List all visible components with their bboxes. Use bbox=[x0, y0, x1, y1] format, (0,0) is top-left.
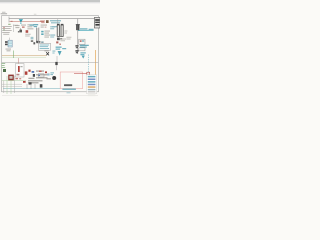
label teal line text bbox=[80, 28, 94, 29]
label teal text under box bbox=[80, 45, 89, 48]
wire orange vertical bbox=[94, 50, 96, 94]
valve V3 on mid line bbox=[55, 62, 57, 70]
node: line to towers bbox=[57, 19, 59, 25]
component dark cluster under towers bbox=[56, 38, 62, 45]
component pump cluster under ladder bbox=[33, 41, 43, 45]
label red text bbox=[40, 21, 45, 24]
label teal text left of towers bbox=[50, 26, 55, 37]
wire short vertical bbox=[13, 24, 15, 32]
label gray text right of towers bbox=[60, 31, 71, 42]
label teal text cluster A bbox=[50, 20, 61, 27]
component small box in band bbox=[38, 74, 44, 77]
component small red box bbox=[87, 72, 90, 75]
wire: long pipe line bbox=[9, 18, 98, 20]
label gray text under vessel bbox=[6, 49, 12, 52]
label gray text near cross bbox=[44, 50, 48, 53]
wire red drop bbox=[18, 58, 20, 64]
component instrument glyphs on riser bbox=[75, 45, 78, 53]
node legend fade rows bbox=[88, 93, 96, 94]
label teal text above ladder bbox=[30, 24, 39, 27]
wire tan line bbox=[2, 54, 47, 56]
component teal flow arrow cluster 2 bbox=[80, 52, 85, 58]
wire green line bbox=[2, 56, 46, 58]
label green text bottom-left bbox=[1, 63, 5, 68]
node red marks in band bbox=[23, 70, 47, 83]
component dark red block bbox=[8, 75, 14, 81]
label gray text right of ladder bbox=[41, 25, 50, 38]
label dense text band center-bottom bbox=[28, 71, 51, 84]
node dark dash beside valve bbox=[18, 31, 19, 33]
top toolbar strip bbox=[0, 0, 100, 2]
label teal marks above pump bbox=[50, 72, 54, 75]
label mid text rows bbox=[15, 24, 33, 29]
annotation text top-left bbox=[1, 12, 8, 15]
wire gray horizontal 3 bbox=[2, 86, 22, 88]
component brown box bbox=[46, 20, 49, 23]
wire: red line L1 bbox=[10, 21, 45, 23]
label small text grid left bbox=[2, 25, 18, 35]
component dark circle pump bbox=[52, 76, 56, 80]
component gray bar inside selection bbox=[64, 84, 72, 86]
component column with rungs (ladder) bbox=[36, 27, 39, 42]
wire: teal line right bbox=[78, 30, 94, 32]
wire mid gray line bbox=[2, 62, 99, 64]
valve V4 under band bbox=[40, 84, 43, 87]
wire teal dashed vertical bbox=[87, 55, 89, 77]
valve V1 teal triangle bbox=[19, 19, 23, 24]
node red/green marks bbox=[3, 27, 5, 30]
node teal marks right of ladder bbox=[41, 31, 43, 35]
component cross symbol bbox=[46, 52, 49, 55]
wire arrow stem bbox=[56, 56, 58, 62]
component box with teal rows bbox=[38, 43, 50, 50]
label faint rows under red blob bbox=[25, 34, 31, 37]
wire faint bottom line bbox=[2, 95, 98, 97]
wire vertical grid lines bottom-left bbox=[4, 76, 15, 94]
wire: vertical riser bbox=[77, 19, 79, 54]
node red dashes mid bbox=[22, 27, 28, 33]
component instrument box right 2 bbox=[79, 48, 85, 51]
node: pipe start tick bbox=[8, 17, 10, 23]
component small bits left of V1 bbox=[8, 21, 12, 25]
component twin towers bbox=[57, 24, 63, 36]
sheet background bbox=[0, 0, 100, 100]
component dark symbol on riser bbox=[76, 24, 80, 30]
wire verticals under band bbox=[27, 84, 35, 89]
wire green horizontal 1 bbox=[2, 80, 26, 82]
component instrument box right bbox=[79, 39, 85, 44]
wire teal horizontal bottom bbox=[3, 88, 60, 90]
wire vertical with valve bbox=[20, 28, 22, 30]
node red bits right of block bbox=[15, 78, 21, 79]
component selection rectangle pink bbox=[60, 72, 82, 89]
wire gray horizontal 2 bbox=[2, 83, 22, 85]
node faint teal dash bottom bbox=[67, 92, 71, 93]
component box with red bar bbox=[15, 64, 24, 77]
node green tap bbox=[13, 51, 15, 59]
drawing frame border bbox=[2, 16, 99, 92]
label faint dash above pipe bbox=[34, 13, 37, 16]
label teal text under selection bbox=[62, 89, 76, 90]
component teal flow arrow cluster 1 bbox=[52, 47, 66, 56]
component cluster small bbox=[31, 37, 34, 42]
component dark green blob bbox=[3, 69, 6, 72]
node blue marks in band bbox=[32, 71, 50, 76]
component vessel with trays (blue box) bbox=[8, 38, 12, 47]
component colored legend table right bbox=[87, 75, 97, 94]
node towers base connector bbox=[57, 35, 63, 38]
node dark marks in band bbox=[29, 74, 35, 85]
valve V2 bbox=[19, 30, 22, 33]
component logo block top-right bbox=[94, 17, 100, 28]
label dark text beside vessel bbox=[5, 41, 8, 45]
wire red line to box right bbox=[74, 72, 87, 74]
